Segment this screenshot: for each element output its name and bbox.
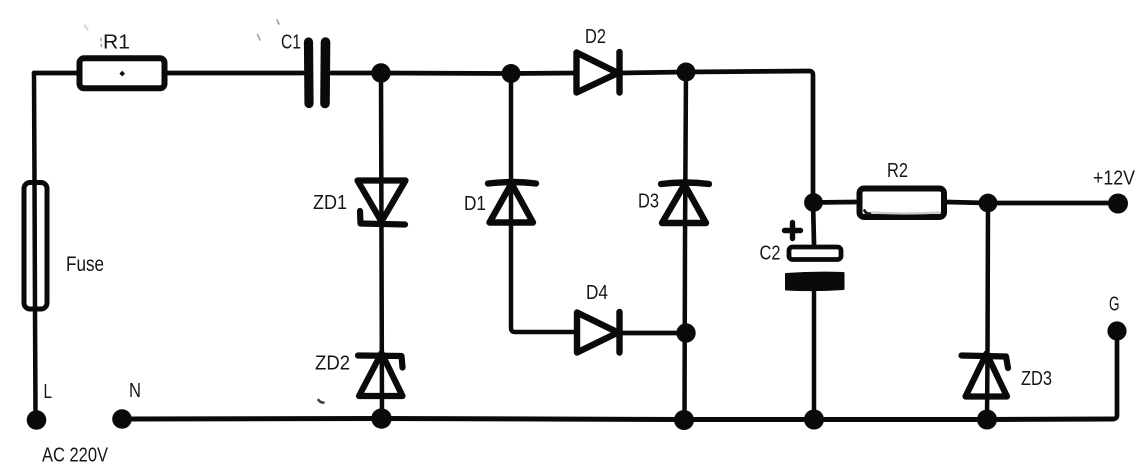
- svg-text:C2: C2: [760, 242, 781, 265]
- wire: R1 right to C1 left plate: [167, 71, 303, 76]
- bottom junction dot ZD3: [977, 410, 997, 430]
- diode D4: [577, 312, 620, 353]
- svg-text:+12V: +12V: [1093, 167, 1135, 190]
- wire: G terminal down to bottom-right corner: [1113, 340, 1117, 419]
- terminal L dot: [27, 410, 47, 430]
- node D junction dot: [804, 193, 823, 212]
- fuse F1: [24, 183, 47, 310]
- wire: D1 branch vertical down to corner: [511, 74, 575, 333]
- zener diode ZD2: [358, 353, 403, 396]
- terminal G dot: [1107, 321, 1126, 340]
- wire: D3 branch vertical through node E to bottom rail: [685, 72, 687, 420]
- diode D3: [661, 183, 709, 224]
- svg-text:G: G: [1109, 293, 1120, 316]
- resistor R2: [860, 189, 945, 218]
- bottom junction dot C2: [804, 410, 824, 430]
- wire: R2 right to node F: [946, 202, 988, 203]
- svg-text:ZD2: ZD2: [315, 352, 350, 375]
- resistor R1: [80, 58, 165, 88]
- diode D1: [488, 182, 536, 223]
- wire: D4 cathode to node E: [621, 331, 686, 336]
- svg-text:AC 220V: AC 220V: [42, 444, 108, 467]
- svg-text:R1: R1: [103, 31, 130, 54]
- svg-text:Fuse: Fuse: [66, 253, 104, 276]
- zener diode ZD3: [962, 354, 1009, 397]
- svg-text:D3: D3: [638, 190, 659, 213]
- capacitor C2 electrolytic: [785, 223, 844, 291]
- svg-text:L: L: [44, 380, 53, 403]
- svg-text:D1: D1: [464, 192, 486, 215]
- zener diode ZD1: [358, 181, 406, 225]
- wire: C1 right plate to node A: [331, 71, 381, 76]
- wire: node F to +12V terminal: [988, 201, 1118, 206]
- wire: left lead from corner to R1: [34, 71, 77, 76]
- bottom junction dot ZD2: [371, 408, 391, 428]
- svg-text:D4: D4: [586, 281, 608, 304]
- bottom junction dot D3: [674, 410, 694, 430]
- faint smudge marks: [85, 20, 940, 403]
- svg-text:N: N: [129, 379, 141, 402]
- wire: bottom rail from N dot to bottom-right corner: [122, 419, 1113, 420]
- wire: node D down through C2 to bottom rail: [813, 202, 814, 244]
- wire: node B to D2 anode: [511, 71, 575, 76]
- node E junction dot (D4 cathode): [676, 323, 695, 342]
- capacitor C1: [309, 42, 326, 104]
- node A junction dot: [371, 63, 390, 82]
- wire: ZD1/ZD2 branch vertical: [381, 73, 382, 418]
- terminal +12V dot: [1108, 194, 1128, 214]
- node F junction dot: [979, 194, 998, 213]
- svg-text:ZD1: ZD1: [313, 191, 347, 214]
- wire: D2 cathode to node C: [621, 72, 686, 73]
- wire: ZD3 branch vertical from node F to bottom rail: [987, 203, 988, 420]
- svg-text:R2: R2: [887, 159, 908, 182]
- node C junction dot: [677, 63, 696, 82]
- diode D2: [577, 52, 620, 93]
- wire: left vertical L line through fuse down to L dot: [34, 73, 36, 413]
- wire: node C to corner then down to node D: [686, 71, 813, 202]
- svg-text:C1: C1: [281, 31, 301, 54]
- wire: node D to R2 left: [813, 200, 856, 205]
- svg-text:D2: D2: [585, 25, 606, 48]
- terminal N dot: [112, 409, 132, 429]
- svg-text:ZD3: ZD3: [1021, 367, 1052, 390]
- wire: top rail node A to node B: [381, 71, 511, 76]
- node B junction dot: [502, 64, 521, 83]
